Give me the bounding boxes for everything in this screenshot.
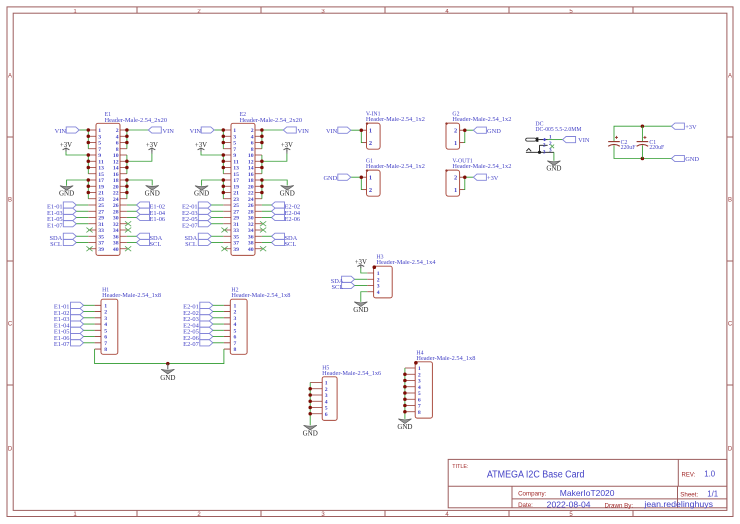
svg-text:31: 31 <box>98 222 104 228</box>
svg-text:5: 5 <box>233 141 236 147</box>
net flag E2-03 at H2 pin 3 <box>183 315 224 324</box>
svg-text:1: 1 <box>233 128 236 134</box>
svg-text:24: 24 <box>248 197 254 203</box>
svg-text:8: 8 <box>116 147 119 153</box>
REV label <box>682 473 696 479</box>
net flag E1-04 at E1 pin 28 <box>127 208 166 217</box>
svg-text:37: 37 <box>233 241 239 247</box>
wire +3V to E2 pin 9 <box>201 151 223 174</box>
svg-text:27: 27 <box>98 209 104 215</box>
svg-text:1: 1 <box>234 303 237 309</box>
svg-text:+3V: +3V <box>146 142 158 149</box>
E1 pins right (2-40) <box>120 130 127 249</box>
svg-text:Drawn By:: Drawn By: <box>605 503 634 510</box>
net flag E2-07 at H2 pin 7 <box>183 340 224 349</box>
C2 value label 220uF <box>621 145 637 151</box>
junction dots +3V bus left E1 <box>87 153 91 169</box>
C1 name label <box>649 140 656 146</box>
wire GND rail below capacitors <box>614 145 672 158</box>
svg-text:39: 39 <box>98 247 104 253</box>
svg-text:5: 5 <box>418 391 421 397</box>
V-OUT1 pins <box>460 177 464 189</box>
wire joining V-IN1 pins 1-2 <box>351 130 363 142</box>
V-IN1 name label <box>366 112 381 118</box>
svg-text:15: 15 <box>233 172 239 178</box>
supply +3V above H3 <box>355 259 367 268</box>
net flag GND at G2 <box>473 127 501 135</box>
junction dot +3V rail <box>641 124 645 128</box>
svg-text:4: 4 <box>116 134 119 140</box>
svg-text:6: 6 <box>104 335 107 341</box>
svg-text:C: C <box>728 322 733 328</box>
svg-text:4: 4 <box>251 134 254 140</box>
supply flag +3V at capacitor rail <box>671 123 697 131</box>
svg-text:E1-07: E1-07 <box>54 341 70 348</box>
H4 pins <box>405 368 415 412</box>
svg-text:E1-07: E1-07 <box>47 222 63 229</box>
E2 pins right (2-40) <box>255 130 262 249</box>
svg-text:12: 12 <box>113 159 119 165</box>
wire C1 branch <box>641 126 643 158</box>
wire joining G1 pins 1-2 <box>351 177 363 189</box>
connector E1 Header-Male-2.54_2x20 <box>96 123 120 255</box>
svg-text:GND: GND <box>487 128 501 135</box>
junction dots GND bus right E2 <box>260 178 264 194</box>
svg-text:GND: GND <box>145 190 160 198</box>
net flag E2-01 at E2 pin 25 <box>182 202 223 211</box>
svg-text:34: 34 <box>248 228 254 234</box>
svg-text:36: 36 <box>248 234 254 240</box>
svg-text:GND: GND <box>685 156 699 163</box>
svg-text:20: 20 <box>248 184 254 190</box>
svg-text:6: 6 <box>234 335 237 341</box>
svg-text:VIN: VIN <box>578 137 590 144</box>
svg-text:3: 3 <box>233 134 236 140</box>
svg-text:+3V: +3V <box>685 124 697 131</box>
svg-text:30: 30 <box>248 216 254 222</box>
svg-text:Header-Male-2.54_1x6: Header-Male-2.54_1x6 <box>322 371 381 377</box>
frame row letters right <box>728 74 733 453</box>
connector H2 Header-Male-2.54_1x8 <box>230 299 247 354</box>
supply flag VIN at E2 pin 2 <box>283 127 309 135</box>
G1 value label Header-Male-2.54_1x2 <box>366 164 425 170</box>
H5 value label Header-Male-2.54_1x6 <box>322 371 381 377</box>
svg-text:GND: GND <box>303 429 318 437</box>
net flag E2-05 at E2 pin 29 <box>182 214 223 223</box>
svg-text:2: 2 <box>377 277 380 283</box>
svg-text:VIN: VIN <box>163 128 175 135</box>
svg-text:15: 15 <box>98 172 104 178</box>
V-OUT1 value label Header-Male-2.54_1x2 <box>452 164 511 170</box>
H2 pin numbers <box>234 303 237 353</box>
svg-text:34: 34 <box>113 228 119 234</box>
wire VIN bus left of E1 (pins 1-7) <box>79 130 89 149</box>
svg-text:32: 32 <box>113 222 119 228</box>
wire joining V-OUT1 pins 1-2 <box>464 177 474 189</box>
ground GND below H1-H2 rail <box>160 364 175 382</box>
C1 value label 220uF <box>649 145 665 151</box>
H4 value label Header-Male-2.54_1x8 <box>416 356 475 362</box>
svg-text:6: 6 <box>325 412 328 418</box>
svg-text:23: 23 <box>98 197 104 203</box>
connector H4 Header-Male-2.54_1x8 <box>414 361 432 418</box>
net flag E1-04 at H1 pin 4 <box>54 321 95 330</box>
connector V-IN1 Header-Male-2.54_1x2 <box>366 122 380 149</box>
svg-text:Sheet:: Sheet: <box>680 491 698 498</box>
junction dot V-IN1 <box>360 128 364 132</box>
svg-text:E2-07: E2-07 <box>183 341 199 348</box>
svg-text:2: 2 <box>234 310 237 316</box>
svg-text:Header-Male-2.54_1x8: Header-Male-2.54_1x8 <box>416 356 475 362</box>
svg-text:GND: GND <box>546 164 561 172</box>
H2 pins <box>224 305 230 349</box>
H3 name label <box>377 254 384 260</box>
svg-text:17: 17 <box>98 178 104 184</box>
svg-text:2: 2 <box>418 372 421 378</box>
Sheet value 1/1 <box>707 490 718 499</box>
wire H3 pin 4 to ground <box>361 292 367 302</box>
net flag GND at capacitor rail <box>671 155 699 163</box>
svg-text:9: 9 <box>98 153 101 159</box>
svg-text:3: 3 <box>418 379 421 385</box>
net flag SCL at E1 pin 37 <box>50 239 88 248</box>
G1 pin numbers <box>369 175 372 194</box>
svg-text:25: 25 <box>98 203 104 209</box>
svg-text:7: 7 <box>234 341 237 347</box>
DC pin numbers <box>543 135 552 156</box>
net flag E2-04 at E2 pin 28 <box>262 208 301 217</box>
svg-text:36: 36 <box>113 234 119 240</box>
no-connect cross DC pin 2 <box>550 145 554 149</box>
Company value MakerIoT2020 <box>560 488 615 498</box>
svg-text:14: 14 <box>248 166 254 172</box>
wire VIN bus left of E2 (pins 1-7) <box>214 130 224 149</box>
wire +3V to E2 pin 12 <box>262 150 287 174</box>
connector G1 Header-Male-2.54_1x2 <box>366 169 380 196</box>
wire GND to E2 pin 17 <box>202 180 224 199</box>
svg-text:2: 2 <box>454 128 457 135</box>
C2 name label <box>621 140 628 146</box>
svg-text:C: C <box>8 322 13 328</box>
net flag E1-03 at E1 pin 27 <box>47 208 88 217</box>
E1 value label Header-Male-2.54_2x20 <box>105 118 168 124</box>
svg-text:21: 21 <box>98 191 104 197</box>
ground GND left of E2 <box>194 186 209 198</box>
svg-text:1: 1 <box>104 303 107 309</box>
supply flag VIN at E2 pin 1 <box>190 127 215 135</box>
net flag SDA at E2 pin 36 <box>262 233 298 242</box>
svg-text:Header-Male-2.54_1x2: Header-Male-2.54_1x2 <box>366 164 425 170</box>
H5 name label <box>322 365 329 371</box>
frame column numbers top <box>73 9 573 15</box>
ground GND right of E1 <box>145 186 160 198</box>
V-OUT1 name label <box>452 159 472 165</box>
svg-text:220uF: 220uF <box>621 145 637 151</box>
G2 pins <box>460 130 464 142</box>
svg-text:B: B <box>8 198 12 204</box>
svg-text:1: 1 <box>418 366 421 372</box>
net flag SDA at E2 pin 35 <box>185 233 224 242</box>
Company label <box>518 491 546 498</box>
net flag E2-02 at E2 pin 26 <box>262 202 300 211</box>
svg-text:2: 2 <box>454 175 457 182</box>
svg-text:16: 16 <box>248 172 254 178</box>
net flag SCL at E1 pin 38 <box>127 239 161 248</box>
svg-text:31: 31 <box>233 222 239 228</box>
net flag SCL at H3 pin 3 <box>331 282 367 291</box>
junction dots VIN bus left E2 <box>222 128 226 144</box>
svg-text:2: 2 <box>543 142 546 148</box>
svg-text:28: 28 <box>113 209 119 215</box>
svg-text:GND: GND <box>59 190 74 198</box>
wire GND rail joining H1 pin 8 and H2 pin 8 <box>95 349 224 364</box>
svg-text:SCL: SCL <box>50 241 62 248</box>
svg-text:32: 32 <box>248 222 254 228</box>
net flag E1-07 at H1 pin 7 <box>54 340 95 349</box>
H1 value label Header-Male-2.54_1x8 <box>102 293 161 299</box>
net flag E1-07 at E1 pin 31 <box>47 221 88 230</box>
svg-text:D: D <box>728 447 733 453</box>
net flag E2-06 at H2 pin 6 <box>183 333 224 342</box>
svg-text:38: 38 <box>113 241 119 247</box>
connector V-OUT1 Header-Male-2.54_1x2 <box>445 169 459 196</box>
svg-text:TITLE:: TITLE: <box>452 464 468 470</box>
svg-text:30: 30 <box>113 216 119 222</box>
junction dots H5 bus <box>308 387 312 416</box>
svg-text:GND: GND <box>280 190 295 198</box>
svg-text:3: 3 <box>234 316 237 322</box>
svg-text:5: 5 <box>325 406 328 412</box>
svg-text:4: 4 <box>104 322 107 328</box>
E2 pins left (1-39) <box>223 130 231 249</box>
svg-text:1/1: 1/1 <box>707 490 718 499</box>
svg-text:GND: GND <box>353 306 368 314</box>
ground GND below H5 <box>303 425 318 437</box>
svg-text:5: 5 <box>234 328 237 334</box>
svg-text:Header-Male-2.54_1x2: Header-Male-2.54_1x2 <box>452 164 511 170</box>
svg-text:6: 6 <box>251 141 254 147</box>
svg-text:22: 22 <box>113 191 119 197</box>
svg-text:10: 10 <box>113 153 119 159</box>
svg-text:19: 19 <box>233 184 239 190</box>
svg-text:25: 25 <box>233 203 239 209</box>
net flag E1-05 at E1 pin 29 <box>47 214 88 223</box>
svg-text:Header-Male-2.54_1x8: Header-Male-2.54_1x8 <box>231 293 290 299</box>
svg-text:4: 4 <box>418 385 421 391</box>
H4 name label <box>416 350 423 356</box>
net flag E2-04 at H2 pin 4 <box>183 321 224 330</box>
svg-text:14: 14 <box>113 166 119 172</box>
svg-text:Header-Male-2.54_1x4: Header-Male-2.54_1x4 <box>377 260 436 266</box>
connector H3 Header-Male-2.54_1x4 <box>373 265 393 298</box>
svg-text:Header-Male-2.54_2x20: Header-Male-2.54_2x20 <box>105 118 168 124</box>
svg-text:2: 2 <box>104 310 107 316</box>
Drawn By value jean.redelinghuys <box>643 500 713 509</box>
svg-text:7: 7 <box>233 147 236 153</box>
H1 pins <box>95 305 101 349</box>
net flag E1-02 at H1 pin 2 <box>54 308 95 317</box>
connector H5 Header-Male-2.54_1x6 <box>322 377 337 421</box>
H4 pin numbers <box>418 366 421 416</box>
svg-text:DC-005 5.5-2.0MM: DC-005 5.5-2.0MM <box>535 127 581 133</box>
supply +3V left of E1 <box>60 142 72 151</box>
svg-text:+3V: +3V <box>355 259 367 266</box>
net flag E1-05 at H1 pin 5 <box>54 327 95 336</box>
svg-text:40: 40 <box>248 247 254 253</box>
svg-text:38: 38 <box>248 241 254 247</box>
wire VIN bus right of E1 (pins 2-8) <box>127 130 149 149</box>
svg-text:2: 2 <box>369 187 372 194</box>
svg-text:6: 6 <box>418 397 421 403</box>
connector H1 Header-Male-2.54_1x8 <box>101 299 118 354</box>
wire GND to E1 pin 18 <box>127 180 152 199</box>
wire VIN bus right of E2 (pins 2-8) <box>262 130 284 149</box>
wire GND to E1 pin 17 <box>67 180 89 199</box>
svg-text:37: 37 <box>98 241 104 247</box>
supply flag VIN at DC jack <box>563 137 590 145</box>
svg-text:28: 28 <box>248 209 254 215</box>
svg-text:8: 8 <box>418 410 421 416</box>
svg-text:2: 2 <box>369 140 372 147</box>
svg-text:REV:: REV: <box>682 473 696 479</box>
DC value label DC-005 5.5-2.0MM <box>535 127 581 133</box>
V-IN1 value label Header-Male-2.54_1x2 <box>366 117 425 123</box>
svg-text:D: D <box>8 447 13 453</box>
DC name label <box>535 121 543 127</box>
ground GND below H4 <box>397 419 412 431</box>
H5 pins <box>310 383 322 414</box>
H1 name label <box>102 287 109 293</box>
H3 value label Header-Male-2.54_1x4 <box>377 260 436 266</box>
svg-text:VIN: VIN <box>298 128 310 135</box>
Date value 2022-08-04 <box>547 500 591 509</box>
svg-text:35: 35 <box>233 234 239 240</box>
ground GND at DC jack <box>546 161 561 173</box>
net flag E1-06 at E1 pin 30 <box>127 214 165 223</box>
no-connect crosses E2 pins 32,34,33,39,40 <box>221 221 266 251</box>
svg-text:5: 5 <box>98 141 101 147</box>
E1 pins left (1-39) <box>88 130 96 249</box>
svg-text:+3V: +3V <box>60 142 72 149</box>
wire DC pin 3 to ground <box>553 152 555 161</box>
net flag E1-01 at E1 pin 25 <box>47 202 88 211</box>
svg-text:16: 16 <box>113 172 119 178</box>
svg-text:+3V: +3V <box>281 142 293 149</box>
svg-text:+3V: +3V <box>195 142 207 149</box>
svg-text:27: 27 <box>233 209 239 215</box>
H3 pins <box>367 273 373 292</box>
junction dot G1 <box>360 175 364 179</box>
svg-text:17: 17 <box>233 178 239 184</box>
svg-text:7: 7 <box>98 147 101 153</box>
net flag E1-01 at H1 pin 1 <box>54 302 95 311</box>
ground GND left of E1 <box>59 186 74 198</box>
svg-text:11: 11 <box>98 159 104 165</box>
E1 pin numbers <box>98 128 118 253</box>
junction dot G2 <box>463 128 467 132</box>
junction dots VIN bus right E1 <box>125 128 128 144</box>
svg-text:VIN: VIN <box>55 128 67 135</box>
svg-text:12: 12 <box>248 159 254 165</box>
svg-text:3: 3 <box>549 148 552 154</box>
svg-text:29: 29 <box>233 216 239 222</box>
net flag E2-06 at E2 pin 30 <box>262 214 300 223</box>
supply +3V left of E2 <box>195 142 207 151</box>
svg-text:19: 19 <box>98 184 104 190</box>
junction dots +3V bus left E2 <box>222 153 226 169</box>
net flag GND at G1 <box>323 174 350 182</box>
title value ATMEGA I2C Base Card <box>487 470 585 481</box>
svg-text:GND: GND <box>160 374 175 382</box>
junction dots VIN bus left E1 <box>87 128 91 144</box>
svg-text:21: 21 <box>233 191 239 197</box>
H3 pin numbers <box>377 271 380 296</box>
svg-text:GND: GND <box>323 175 337 182</box>
V-OUT1 pin numbers <box>454 175 457 194</box>
H5 pin numbers <box>325 381 328 418</box>
svg-text:22: 22 <box>248 191 254 197</box>
svg-text:1: 1 <box>454 140 457 147</box>
svg-text:9: 9 <box>233 153 236 159</box>
svg-text:VIN: VIN <box>326 128 338 135</box>
svg-text:Header-Male-2.54_1x8: Header-Male-2.54_1x8 <box>102 293 161 299</box>
svg-text:3: 3 <box>543 150 546 156</box>
svg-text:11: 11 <box>233 159 239 165</box>
supply flag VIN at E1 pin 2 <box>148 127 174 135</box>
connector E2 Header-Male-2.54_2x20 <box>231 123 255 255</box>
net flag SDA at H3 pin 2 <box>331 276 367 285</box>
net flag E2-03 at E2 pin 27 <box>182 208 223 217</box>
svg-text:SCL: SCL <box>285 241 297 248</box>
svg-text:B: B <box>728 198 732 204</box>
junction dot GND rail <box>641 157 645 161</box>
svg-text:40: 40 <box>113 247 119 253</box>
svg-text:10: 10 <box>248 153 254 159</box>
junction dots GND bus left E2 <box>222 178 226 194</box>
net flag VIN at V-IN1 <box>326 127 351 135</box>
svg-text:E1-06: E1-06 <box>150 216 166 223</box>
net flag +3V at V-OUT1 <box>473 174 498 182</box>
svg-text:+3V: +3V <box>487 175 499 182</box>
connector DC DC-005 barrel jack <box>526 137 554 154</box>
net flag E2-02 at H2 pin 2 <box>183 308 224 317</box>
svg-text:1.0: 1.0 <box>704 470 716 479</box>
svg-text:3: 3 <box>104 316 107 322</box>
svg-text:33: 33 <box>233 228 239 234</box>
svg-text:1: 1 <box>369 175 372 182</box>
svg-text:8: 8 <box>104 347 107 353</box>
svg-text:SCL: SCL <box>185 241 197 248</box>
REV value 1.0 <box>704 470 716 479</box>
net flag E2-01 at H2 pin 1 <box>183 302 224 311</box>
svg-text:2: 2 <box>325 387 328 393</box>
svg-text:1: 1 <box>377 271 380 277</box>
junction dots +3V bus right E1 <box>125 160 128 170</box>
svg-text:3: 3 <box>325 393 328 399</box>
wire bus joining H4 pins 1-8 to ground <box>404 368 406 419</box>
junction dots GND bus right E1 <box>125 178 128 194</box>
svg-text:24: 24 <box>113 197 119 203</box>
G2 name label <box>452 112 459 118</box>
V-IN1 pin numbers <box>369 128 372 147</box>
TITLE label <box>452 464 468 470</box>
svg-text:7: 7 <box>104 341 107 347</box>
svg-text:2: 2 <box>251 128 254 134</box>
svg-text:8: 8 <box>234 347 237 353</box>
V-IN1 pins <box>362 130 366 142</box>
svg-text:Date:: Date: <box>518 502 533 509</box>
svg-text:35: 35 <box>98 234 104 240</box>
